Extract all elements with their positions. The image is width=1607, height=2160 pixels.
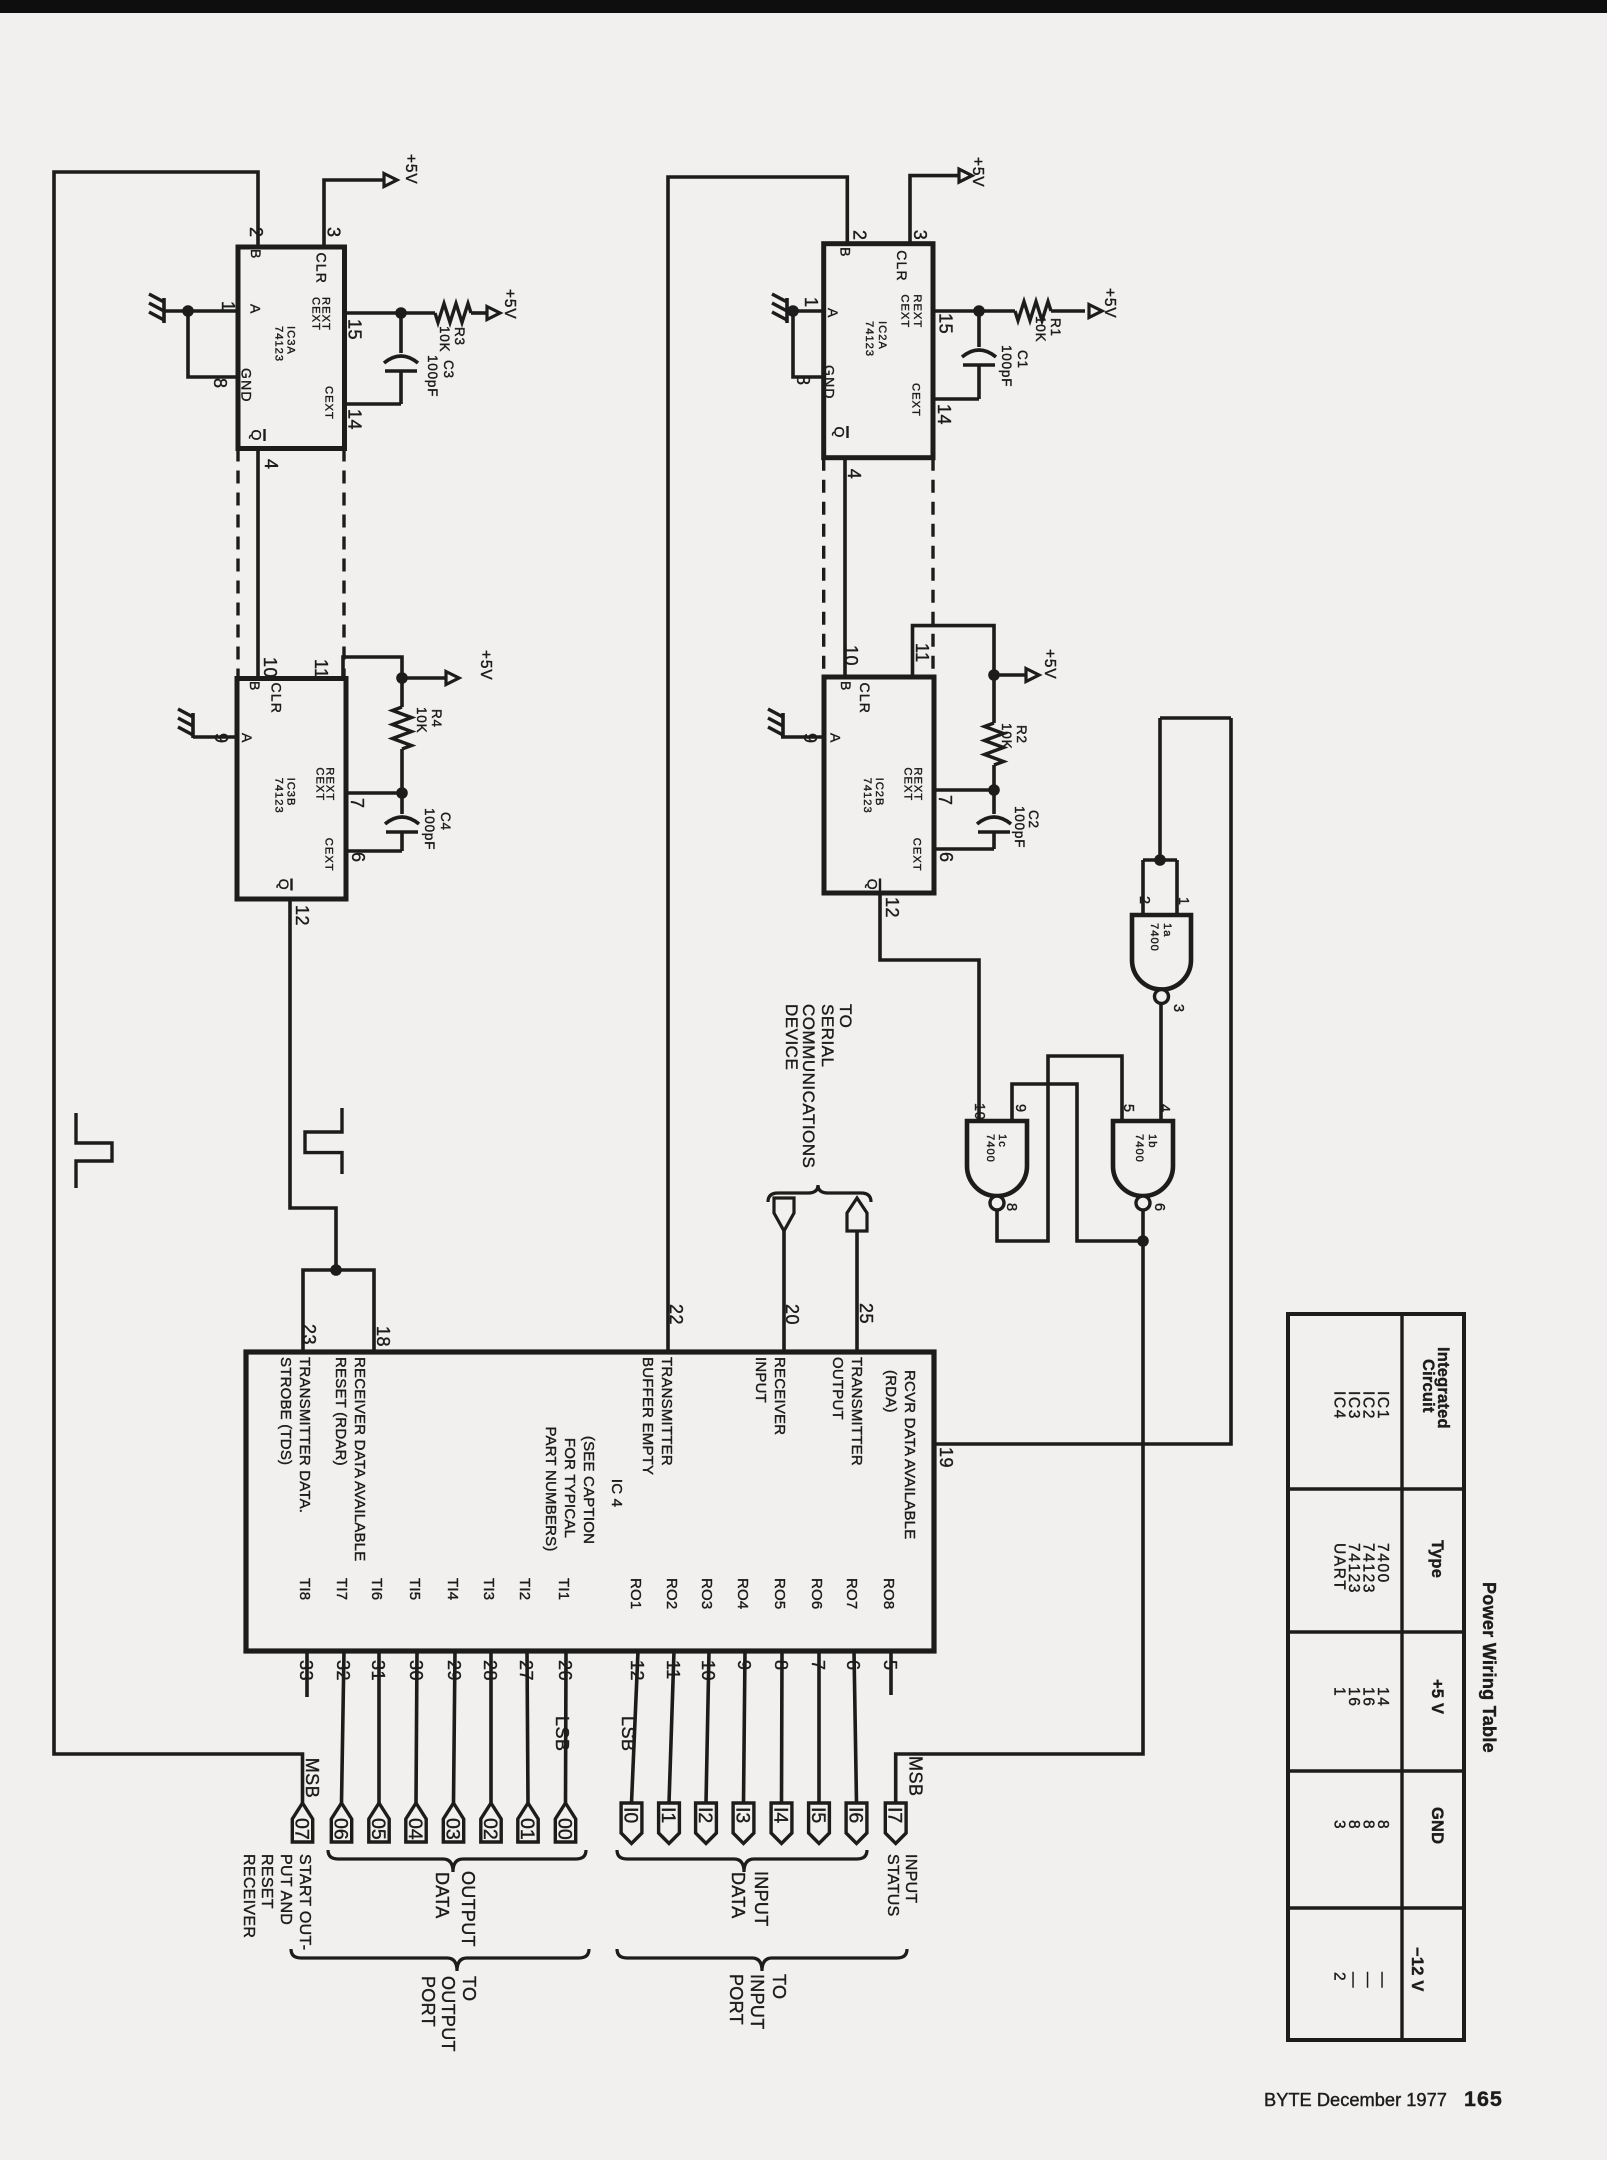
svg-text:RO3: RO3	[698, 1578, 715, 1609]
svg-text:RECEIVER: RECEIVER	[240, 1854, 257, 1938]
svg-text:LSB: LSB	[618, 1716, 638, 1752]
svg-text:INPUT: INPUT	[747, 1974, 767, 2030]
svg-text:I6: I6	[845, 1807, 867, 1823]
svg-text:25: 25	[856, 1303, 876, 1324]
svg-text:00: 00	[554, 1818, 576, 1840]
svg-text:7: 7	[347, 798, 367, 809]
svg-text:RO1: RO1	[627, 1578, 644, 1609]
svg-text:10K: 10K	[414, 707, 429, 733]
svg-text:1: 1	[801, 297, 821, 308]
svg-text:100pF: 100pF	[425, 355, 440, 397]
svg-text:2: 2	[1331, 1972, 1348, 1982]
svg-text:9: 9	[211, 733, 231, 744]
svg-text:I3: I3	[732, 1807, 754, 1823]
svg-text:A: A	[828, 733, 844, 744]
svg-text:IC3A: IC3A	[285, 326, 297, 355]
svg-text:I4: I4	[770, 1807, 792, 1823]
svg-text:+5V: +5V	[477, 650, 494, 680]
svg-text:+5V: +5V	[501, 289, 518, 319]
svg-text:B: B	[248, 249, 264, 260]
svg-text:Q: Q	[832, 427, 848, 439]
svg-text:IC 4: IC 4	[608, 1479, 625, 1507]
svg-text:I7: I7	[884, 1807, 906, 1823]
svg-text:01: 01	[516, 1818, 538, 1840]
svg-text:12: 12	[882, 897, 902, 918]
svg-text:−12 V: −12 V	[1408, 1947, 1426, 1992]
svg-text:74123: 74123	[273, 778, 285, 814]
svg-text:TI2: TI2	[516, 1578, 533, 1600]
svg-text:UART: UART	[1331, 1543, 1348, 1591]
svg-text:+5V: +5V	[969, 157, 986, 187]
svg-text:RESET: RESET	[258, 1854, 275, 1909]
svg-text:4: 4	[1156, 1104, 1172, 1113]
svg-text:START OUT-: START OUT-	[296, 1854, 313, 1950]
svg-text:SERIAL: SERIAL	[818, 1004, 837, 1067]
svg-text:Circuit: Circuit	[1419, 1359, 1437, 1413]
svg-text:Q: Q	[249, 430, 265, 442]
svg-text:(RDA): (RDA)	[882, 1370, 899, 1413]
svg-text:100pF: 100pF	[422, 808, 437, 850]
svg-text:DEVICE: DEVICE	[782, 1004, 801, 1070]
svg-text:INPUT: INPUT	[752, 1357, 769, 1403]
svg-text:1: 1	[1175, 897, 1191, 906]
svg-text:TI7: TI7	[333, 1578, 350, 1600]
svg-text:CLR: CLR	[269, 683, 285, 715]
svg-text:11: 11	[912, 643, 932, 663]
svg-text:I1: I1	[657, 1807, 679, 1823]
svg-text:TI3: TI3	[480, 1578, 497, 1600]
svg-text:DATA: DATA	[728, 1872, 748, 1919]
svg-text:GND: GND	[821, 365, 837, 400]
svg-text:PORT: PORT	[726, 1974, 746, 2025]
svg-text:14: 14	[934, 404, 954, 425]
svg-text:6: 6	[348, 852, 368, 863]
svg-text:18: 18	[373, 1326, 393, 1347]
svg-text:3: 3	[1331, 1820, 1348, 1830]
svg-text:STATUS: STATUS	[884, 1854, 901, 1917]
svg-text:1b: 1b	[1146, 1134, 1158, 1148]
svg-text:TRANSMITTER DATA.: TRANSMITTER DATA.	[296, 1357, 313, 1513]
svg-text:Type: Type	[1428, 1540, 1446, 1578]
svg-text:CEXT: CEXT	[899, 294, 911, 328]
svg-text:TI1: TI1	[555, 1578, 572, 1600]
svg-text:PORT: PORT	[418, 1976, 438, 2027]
svg-text:10: 10	[841, 645, 861, 666]
svg-text:07: 07	[291, 1818, 313, 1840]
svg-text:TI5: TI5	[406, 1578, 423, 1600]
svg-text:REXT: REXT	[911, 294, 923, 328]
svg-text:FOR TYPICAL: FOR TYPICAL	[561, 1438, 578, 1538]
svg-text:OUTPUT: OUTPUT	[829, 1357, 846, 1420]
svg-text:CEXT: CEXT	[910, 383, 922, 417]
svg-text:+5V: +5V	[1101, 288, 1118, 318]
svg-text:TI4: TI4	[444, 1578, 461, 1600]
svg-text:R3: R3	[452, 327, 467, 346]
svg-text:INPUT: INPUT	[751, 1871, 771, 1927]
svg-text:05: 05	[367, 1818, 389, 1840]
svg-text:RO7: RO7	[843, 1578, 860, 1609]
svg-text:8: 8	[1003, 1203, 1019, 1212]
svg-text:2: 2	[1136, 896, 1152, 905]
svg-text:B: B	[838, 247, 854, 258]
svg-text:I0: I0	[620, 1807, 642, 1823]
svg-text:4: 4	[261, 459, 281, 470]
svg-text:R2: R2	[1014, 725, 1029, 744]
svg-text:9: 9	[1012, 1104, 1028, 1113]
svg-text:R4: R4	[429, 709, 444, 728]
svg-text:C1: C1	[1015, 350, 1030, 369]
svg-text:22: 22	[666, 1304, 686, 1325]
svg-text:03: 03	[442, 1818, 464, 1840]
svg-text:MSB: MSB	[302, 1758, 322, 1799]
svg-text:8: 8	[210, 378, 230, 389]
svg-text:PUT AND: PUT AND	[277, 1854, 294, 1925]
svg-text:BYTE December 1977: BYTE December 1977	[1264, 2089, 1447, 2110]
svg-text:15: 15	[345, 319, 365, 340]
svg-text:RO5: RO5	[771, 1578, 788, 1609]
svg-text:Q: Q	[276, 879, 292, 891]
svg-text:7400: 7400	[1148, 923, 1160, 952]
svg-text:TI8: TI8	[296, 1578, 313, 1600]
svg-text:GND: GND	[238, 368, 254, 403]
svg-text:04: 04	[404, 1818, 426, 1840]
svg-text:+5 V: +5 V	[1428, 1679, 1446, 1714]
svg-text:A: A	[825, 308, 841, 319]
svg-text:74123: 74123	[861, 778, 873, 814]
svg-text:IC2B: IC2B	[873, 778, 885, 807]
svg-text:DATA: DATA	[432, 1872, 452, 1919]
svg-text:LSB: LSB	[552, 1716, 572, 1752]
svg-text:3: 3	[910, 230, 930, 241]
svg-text:74123: 74123	[273, 326, 285, 362]
svg-text:6: 6	[1151, 1203, 1167, 1212]
svg-text:RECEIVER DATA AVAILABLE: RECEIVER DATA AVAILABLE	[351, 1357, 368, 1561]
svg-text:CEXT: CEXT	[901, 767, 913, 801]
svg-text:10K: 10K	[1033, 316, 1048, 342]
svg-text:RO8: RO8	[880, 1578, 897, 1609]
svg-text:TRANSMITTER: TRANSMITTER	[658, 1357, 675, 1466]
svg-text:RO6: RO6	[808, 1578, 825, 1609]
svg-text:A: A	[239, 733, 255, 744]
svg-text:C4: C4	[438, 812, 453, 831]
svg-text:A: A	[248, 304, 264, 315]
svg-text:C3: C3	[441, 360, 456, 379]
svg-text:1: 1	[218, 301, 238, 312]
svg-text:STROBE (TDS): STROBE (TDS)	[277, 1357, 294, 1465]
svg-text:02: 02	[479, 1818, 501, 1840]
svg-text:OUTPUT: OUTPUT	[438, 1976, 458, 2052]
svg-text:7: 7	[935, 795, 955, 806]
svg-text:1a: 1a	[1161, 923, 1173, 937]
svg-text:RCVR DATA AVAILABLE: RCVR DATA AVAILABLE	[901, 1370, 918, 1539]
svg-text:CEXT: CEXT	[313, 767, 325, 801]
svg-text:I5: I5	[807, 1807, 829, 1823]
svg-text:8: 8	[793, 375, 813, 386]
svg-text:I2: I2	[694, 1807, 716, 1823]
svg-text:RECEIVER: RECEIVER	[771, 1357, 788, 1435]
svg-text:(SEE CAPTION: (SEE CAPTION	[580, 1436, 597, 1544]
svg-text:Q: Q	[864, 879, 880, 891]
svg-text:1: 1	[1331, 1687, 1348, 1697]
svg-text:3: 3	[1170, 1004, 1186, 1013]
svg-text:1c: 1c	[996, 1134, 1008, 1148]
svg-text:IC3B: IC3B	[285, 778, 297, 807]
svg-text:12: 12	[292, 905, 312, 926]
svg-text:GND: GND	[1428, 1807, 1446, 1844]
svg-text:RO4: RO4	[734, 1578, 751, 1609]
svg-text:C2: C2	[1026, 810, 1041, 829]
svg-text:10K: 10K	[437, 326, 452, 352]
svg-text:INPUT: INPUT	[902, 1854, 919, 1904]
svg-text:7400: 7400	[1133, 1134, 1145, 1163]
svg-text:19: 19	[936, 1447, 956, 1468]
svg-text:2: 2	[850, 230, 870, 241]
svg-text:74123: 74123	[863, 321, 875, 357]
svg-text:20: 20	[782, 1304, 802, 1325]
svg-text:CEXT: CEXT	[323, 386, 335, 420]
svg-text:RO2: RO2	[663, 1578, 680, 1609]
svg-text:10: 10	[971, 1103, 987, 1120]
svg-text:TI6: TI6	[368, 1578, 385, 1600]
svg-text:MSB: MSB	[905, 1756, 925, 1797]
svg-text:7400: 7400	[984, 1134, 996, 1163]
svg-text:CEXT: CEXT	[911, 838, 923, 872]
svg-text:IC2A: IC2A	[876, 321, 888, 350]
svg-text:RESET (RDAR): RESET (RDAR)	[332, 1357, 349, 1466]
svg-text:BUFFER EMPTY: BUFFER EMPTY	[639, 1357, 656, 1475]
svg-text:CEXT: CEXT	[323, 838, 335, 872]
svg-text:9: 9	[800, 733, 820, 744]
svg-text:+5V: +5V	[1041, 649, 1058, 679]
svg-text:23: 23	[299, 1324, 319, 1345]
svg-text:CEXT: CEXT	[310, 297, 322, 331]
svg-text:B: B	[838, 681, 854, 692]
svg-text:+5V: +5V	[402, 154, 419, 184]
svg-text:OUTPUT: OUTPUT	[458, 1871, 478, 1947]
svg-text:4: 4	[844, 469, 864, 480]
svg-text:TO: TO	[836, 1004, 855, 1028]
svg-text:2: 2	[246, 227, 266, 238]
svg-text:R1: R1	[1048, 318, 1063, 337]
svg-text:10K: 10K	[999, 723, 1014, 749]
svg-text:TO: TO	[769, 1974, 789, 1999]
svg-text:14: 14	[345, 409, 365, 430]
svg-text:CLR: CLR	[857, 683, 873, 715]
svg-text:15: 15	[935, 313, 955, 334]
svg-text:3: 3	[324, 227, 344, 238]
svg-text:6: 6	[936, 852, 956, 863]
svg-text:CLR: CLR	[313, 253, 329, 285]
svg-text:CLR: CLR	[894, 250, 910, 282]
svg-text:Power Wiring Table: Power Wiring Table	[1479, 1582, 1499, 1753]
svg-text:11: 11	[311, 659, 331, 679]
svg-text:100pF: 100pF	[999, 345, 1014, 387]
svg-text:IC4: IC4	[1331, 1391, 1348, 1420]
svg-text:06: 06	[330, 1818, 352, 1840]
svg-text:165: 165	[1464, 2087, 1503, 2111]
svg-text:100pF: 100pF	[1012, 806, 1027, 848]
svg-text:B: B	[247, 681, 263, 692]
svg-text:PART NUMBERS): PART NUMBERS)	[542, 1426, 559, 1551]
svg-text:10: 10	[260, 657, 280, 678]
svg-text:TO: TO	[459, 1976, 479, 2001]
svg-text:TRANSMITTER: TRANSMITTER	[848, 1357, 865, 1466]
